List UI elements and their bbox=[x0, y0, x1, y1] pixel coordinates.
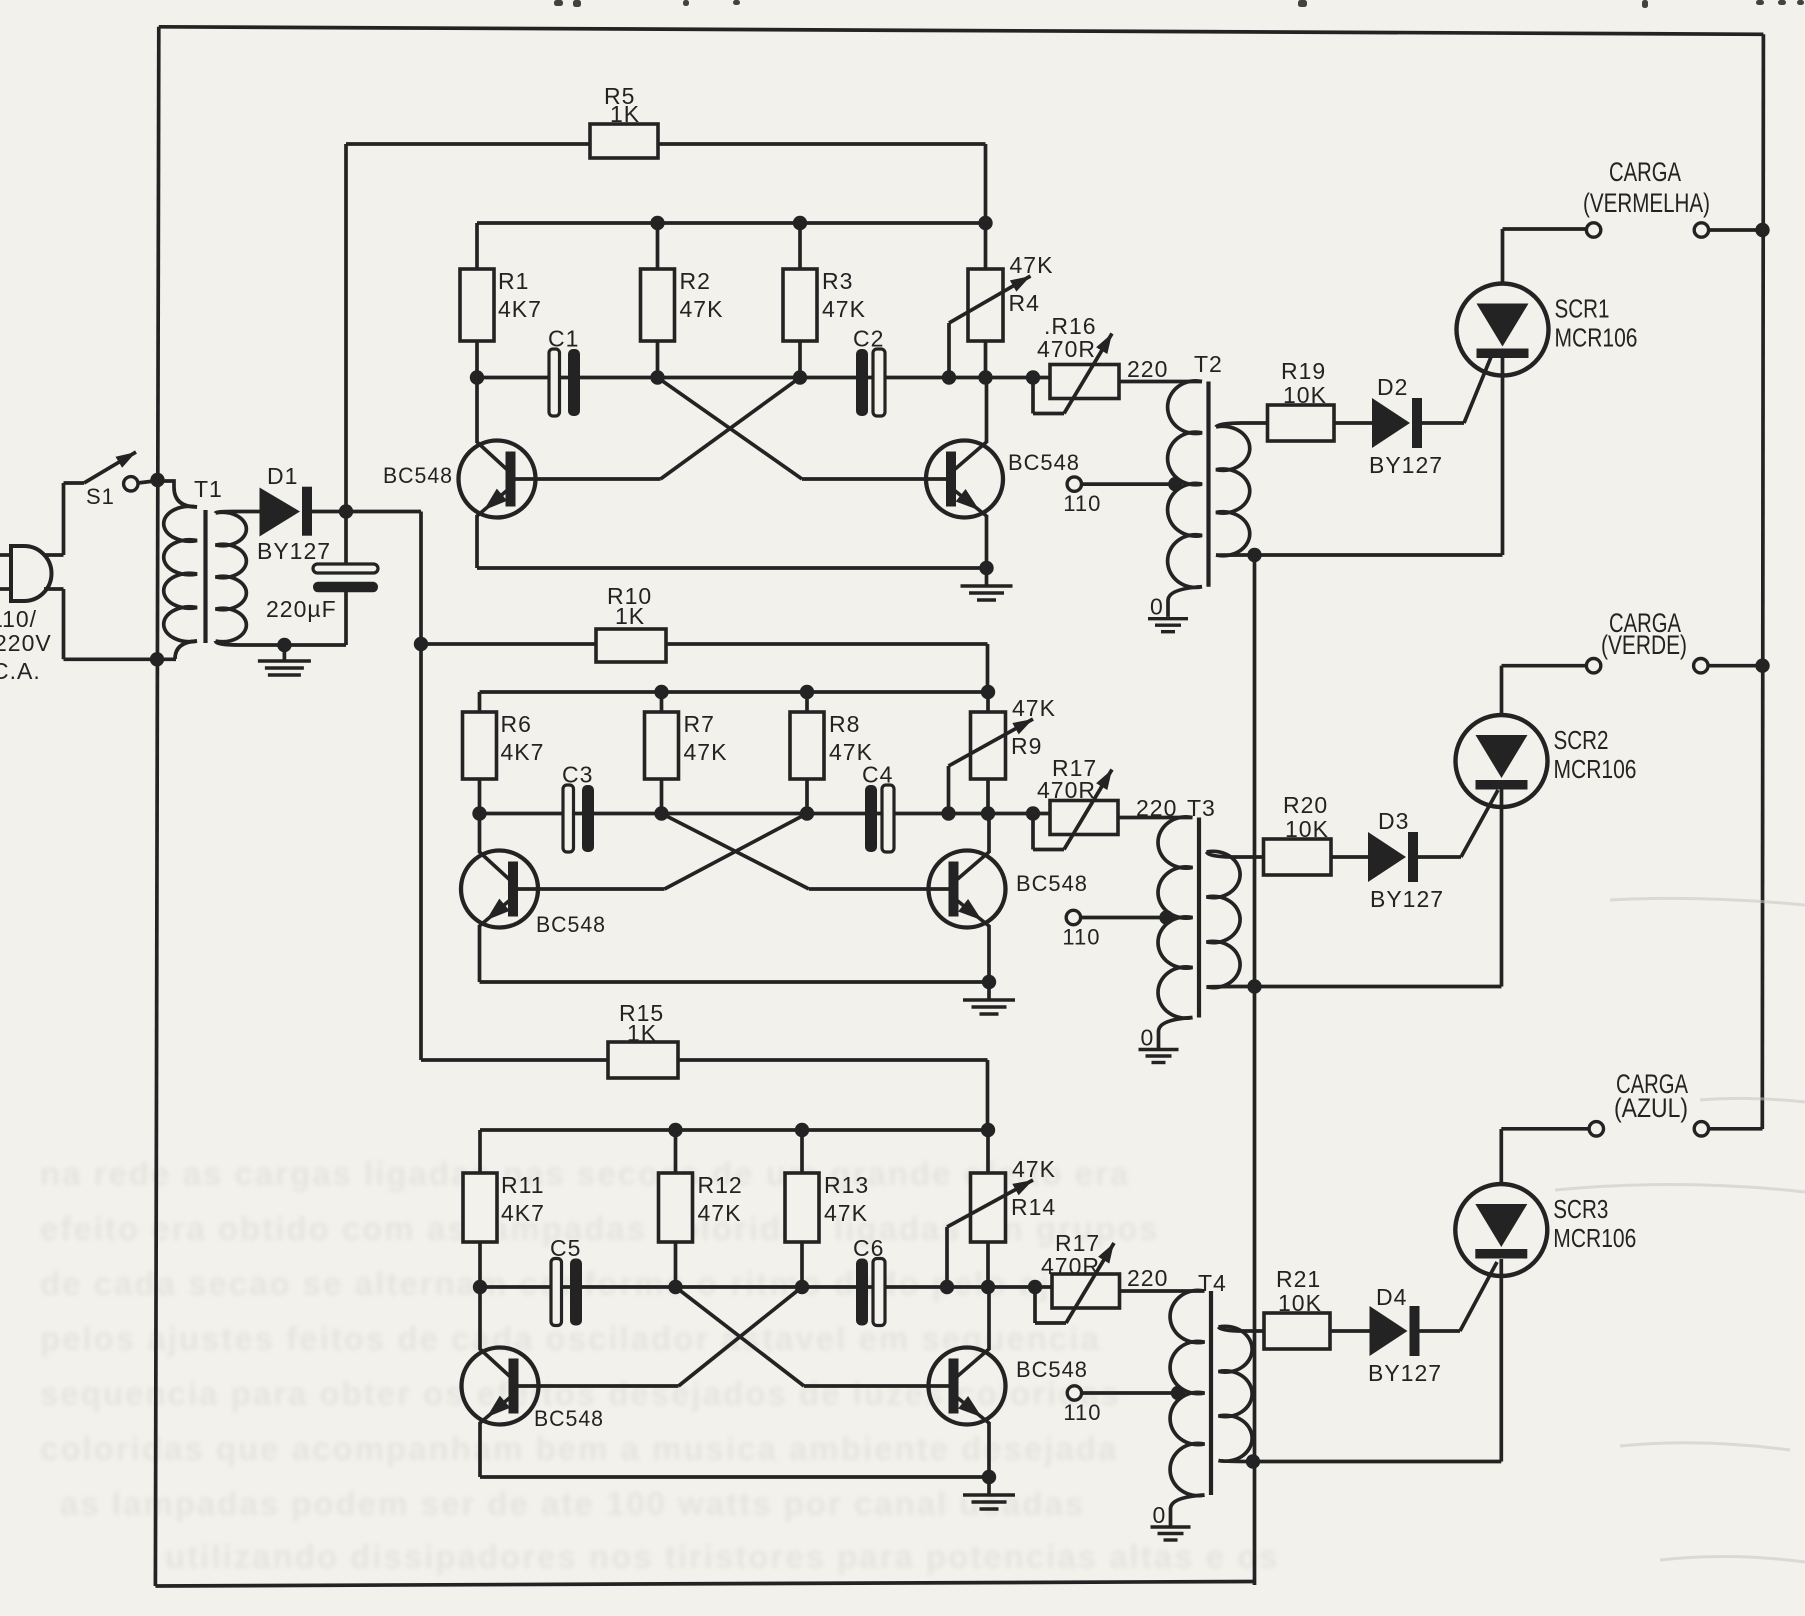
svg-text:10K: 10K bbox=[1283, 382, 1327, 408]
svg-text:R13: R13 bbox=[824, 1172, 869, 1198]
svg-text:BC548: BC548 bbox=[1016, 1357, 1088, 1382]
svg-text:R11: R11 bbox=[501, 1172, 545, 1198]
svg-text:110: 110 bbox=[1063, 491, 1101, 516]
svg-text:R20: R20 bbox=[1283, 792, 1328, 818]
svg-text:R12: R12 bbox=[698, 1172, 743, 1198]
svg-text:R14: R14 bbox=[1011, 1194, 1056, 1220]
svg-text:pelos ajustes feitos de cada o: pelos ajustes feitos de cada oscilador a… bbox=[40, 1320, 1101, 1357]
svg-text:R7: R7 bbox=[684, 711, 715, 737]
svg-text:C4: C4 bbox=[862, 762, 893, 788]
svg-text:T2: T2 bbox=[1194, 351, 1223, 377]
svg-text:R19: R19 bbox=[1281, 358, 1326, 384]
svg-text:47K: 47K bbox=[680, 296, 724, 322]
svg-text:0: 0 bbox=[1141, 1025, 1155, 1051]
svg-text:47K: 47K bbox=[1012, 1156, 1056, 1182]
svg-text:C3: C3 bbox=[562, 762, 593, 788]
svg-text:na rede as cargas ligadas nas: na rede as cargas ligadas nas secoes de … bbox=[40, 1155, 1130, 1192]
svg-text:BC548: BC548 bbox=[536, 912, 606, 937]
svg-text:SCR2: SCR2 bbox=[1554, 725, 1609, 755]
svg-text:BY127: BY127 bbox=[1369, 452, 1443, 478]
svg-text:BY127: BY127 bbox=[257, 538, 331, 564]
svg-text:T1: T1 bbox=[194, 476, 223, 502]
svg-text:47K: 47K bbox=[1012, 695, 1056, 721]
svg-text:R8: R8 bbox=[829, 711, 860, 737]
svg-text:0: 0 bbox=[1153, 1502, 1167, 1528]
svg-text:220V: 220V bbox=[0, 630, 52, 656]
svg-text:110: 110 bbox=[1062, 925, 1100, 950]
svg-text:10K: 10K bbox=[1285, 816, 1329, 842]
svg-text:220: 220 bbox=[1127, 356, 1168, 382]
svg-text:R9: R9 bbox=[1011, 733, 1042, 759]
svg-text:C1: C1 bbox=[548, 326, 579, 352]
svg-text:1K: 1K bbox=[627, 1020, 657, 1046]
svg-text:CARGA: CARGA bbox=[1609, 157, 1681, 187]
svg-text:0: 0 bbox=[1150, 594, 1164, 620]
svg-text:D3: D3 bbox=[1378, 808, 1409, 834]
svg-text:R4: R4 bbox=[1009, 290, 1040, 316]
svg-text:10K: 10K bbox=[1278, 1290, 1322, 1316]
svg-text:1K: 1K bbox=[615, 603, 645, 629]
svg-text:MCR106: MCR106 bbox=[1553, 1223, 1636, 1253]
svg-text:C5: C5 bbox=[550, 1235, 581, 1261]
svg-text:C6: C6 bbox=[853, 1235, 884, 1261]
svg-text:BY127: BY127 bbox=[1370, 886, 1444, 912]
svg-text:BC548: BC548 bbox=[1008, 450, 1080, 475]
svg-text:R1: R1 bbox=[498, 268, 529, 294]
svg-text:470R: 470R bbox=[1037, 336, 1096, 362]
svg-text:220: 220 bbox=[1127, 1265, 1168, 1291]
svg-text:coloridas que acompanham bem a: coloridas que acompanham bem a musica am… bbox=[40, 1430, 1118, 1467]
svg-text:47K: 47K bbox=[1010, 252, 1054, 278]
svg-text:220µF: 220µF bbox=[266, 596, 337, 622]
svg-text:R21: R21 bbox=[1276, 1266, 1321, 1292]
svg-text:R2: R2 bbox=[680, 268, 711, 294]
svg-text:47K: 47K bbox=[824, 1200, 868, 1226]
svg-text:4K7: 4K7 bbox=[501, 1200, 545, 1226]
svg-text:SCR1: SCR1 bbox=[1555, 294, 1610, 324]
svg-text:470R: 470R bbox=[1041, 1253, 1100, 1279]
svg-text:1K: 1K bbox=[610, 101, 640, 127]
svg-text:MCR106: MCR106 bbox=[1554, 754, 1637, 784]
svg-text:47K: 47K bbox=[684, 739, 728, 765]
svg-text:SCR3: SCR3 bbox=[1553, 1194, 1608, 1224]
svg-text:220: 220 bbox=[1136, 795, 1177, 821]
svg-text:D4: D4 bbox=[1376, 1284, 1407, 1310]
svg-text:C2: C2 bbox=[853, 326, 884, 352]
svg-text:BC548: BC548 bbox=[1016, 871, 1088, 896]
svg-text:(AZUL): (AZUL) bbox=[1614, 1093, 1688, 1123]
svg-text:C.A.: C.A. bbox=[0, 658, 41, 684]
svg-text:R3: R3 bbox=[822, 268, 853, 294]
svg-text:S1: S1 bbox=[86, 484, 115, 509]
svg-text:110: 110 bbox=[1063, 1400, 1101, 1425]
svg-text:T3: T3 bbox=[1187, 795, 1216, 821]
svg-text:47K: 47K bbox=[822, 296, 866, 322]
svg-text:BY127: BY127 bbox=[1368, 1360, 1442, 1386]
svg-text:MCR106: MCR106 bbox=[1555, 323, 1638, 353]
svg-text:D2: D2 bbox=[1377, 374, 1408, 400]
svg-text:47K: 47K bbox=[698, 1200, 742, 1226]
svg-text:BC548: BC548 bbox=[383, 463, 453, 488]
svg-text:T4: T4 bbox=[1198, 1270, 1227, 1296]
svg-text:de cada secao se alternam conf: de cada secao se alternam conforme o rit… bbox=[40, 1265, 1126, 1302]
svg-text:4K7: 4K7 bbox=[498, 296, 542, 322]
svg-text:470R: 470R bbox=[1037, 777, 1096, 803]
svg-text:as lampadas podem ser de ate 1: as lampadas podem ser de ate 100 watts p… bbox=[60, 1485, 1085, 1522]
svg-text:(VERDE): (VERDE) bbox=[1601, 630, 1687, 660]
svg-text:4K7: 4K7 bbox=[501, 739, 545, 765]
svg-text:D1: D1 bbox=[267, 463, 298, 489]
svg-text:utilizando dissipadores nos ti: utilizando dissipadores nos tiristores p… bbox=[165, 1538, 1280, 1575]
svg-text:R6: R6 bbox=[501, 711, 532, 737]
svg-text:110/: 110/ bbox=[0, 606, 37, 632]
svg-text:BC548: BC548 bbox=[534, 1406, 604, 1431]
svg-text:(VERMELHA): (VERMELHA) bbox=[1583, 188, 1710, 218]
